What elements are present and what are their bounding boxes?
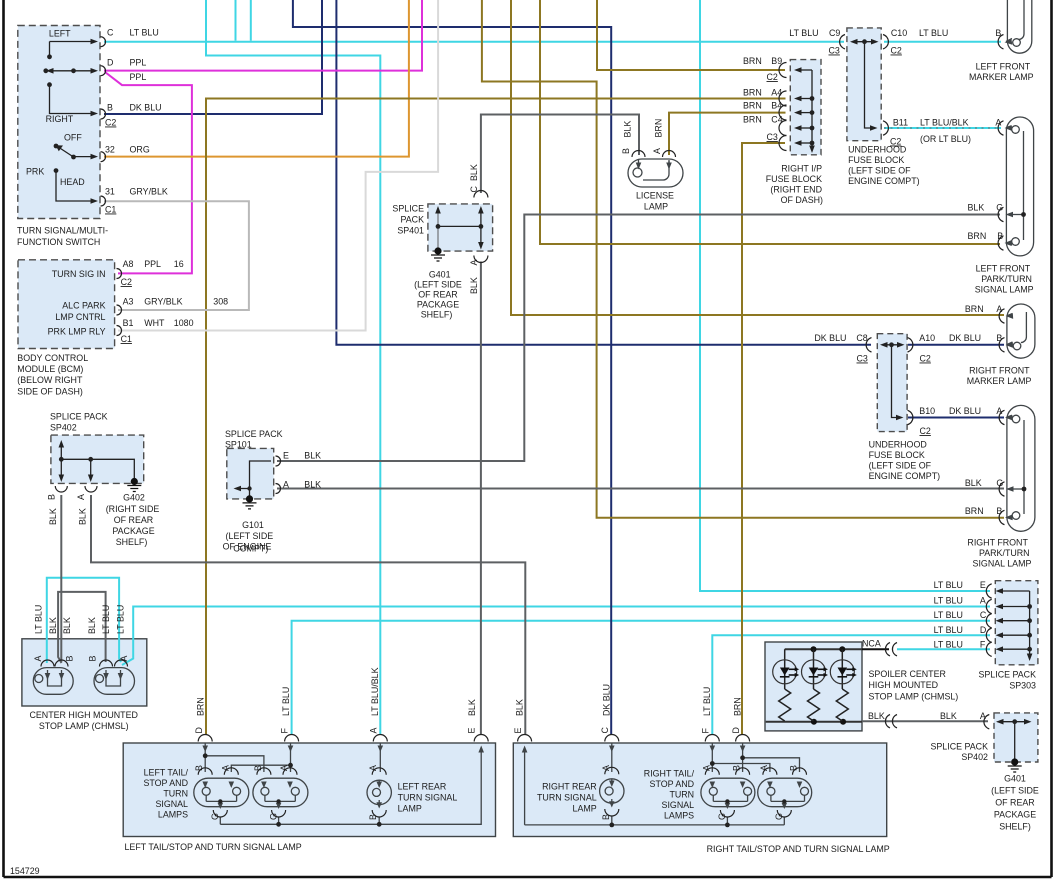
svg-text:BRN: BRN (965, 506, 984, 516)
svg-text:A4: A4 (771, 88, 782, 98)
svg-text:A: A (469, 260, 479, 266)
svg-text:G: G (717, 813, 727, 820)
splice pack SP401 box (428, 204, 493, 251)
svg-text:B10: B10 (919, 406, 935, 416)
wire BRN fuse C3 run to right tail lamp pin D (742, 143, 785, 735)
svg-text:C2: C2 (920, 426, 931, 436)
svg-text:BLK: BLK (78, 508, 88, 525)
left tail/stop and turn signal lamp box (123, 743, 495, 837)
wire GRY/BLK switch pin 31 to BCM pin A3 (104, 201, 249, 310)
svg-text:A: A (996, 406, 1002, 416)
svg-text:A: A (980, 711, 986, 721)
svg-text:G401: G401 (429, 270, 451, 280)
svg-text:(BELOW RIGHT: (BELOW RIGHT (17, 375, 83, 385)
svg-text:154729: 154729 (10, 866, 40, 876)
LED 2 (808, 649, 820, 721)
wire LT BLU C10 to left front marker lamp pin B (884, 41, 1001, 43)
left tail dual filament bulb 2 (253, 778, 308, 824)
wire BLK splice SP402 pin A to right tail lamp pin E (91, 495, 525, 735)
svg-text:B: B (88, 656, 98, 662)
svg-text:BODY CONTROL: BODY CONTROL (17, 353, 88, 363)
svg-text:RIGHT REAR: RIGHT REAR (542, 782, 597, 792)
svg-text:FUSE BLOCK: FUSE BLOCK (869, 450, 925, 460)
svg-text:ALC PARK: ALC PARK (62, 301, 105, 311)
svg-text:SHELF): SHELF) (116, 537, 148, 547)
svg-text:A: A (368, 765, 378, 771)
right I/P fuse block box (790, 60, 821, 155)
svg-text:LT BLU: LT BLU (702, 687, 712, 716)
svg-text:D: D (980, 625, 986, 635)
wire PPL switch pin D to top (104, 0, 422, 71)
I/P fuse pin arcs (779, 63, 787, 151)
svg-text:B: B (253, 765, 263, 771)
svg-text:B9: B9 (771, 56, 782, 66)
svg-text:A: A (76, 494, 86, 500)
svg-text:C3: C3 (857, 354, 868, 364)
svg-text:SPLICE PACK: SPLICE PACK (50, 412, 108, 422)
svg-text:A: A (652, 148, 662, 154)
svg-text:COMPT): COMPT) (233, 544, 268, 554)
wire LT BLU pin C to C9 connector (104, 41, 844, 43)
svg-text:OF REAR: OF REAR (114, 515, 153, 525)
svg-text:PRK: PRK (26, 167, 44, 177)
svg-text:CENTER HIGH MOUNTED: CENTER HIGH MOUNTED (29, 710, 137, 720)
svg-text:LT BLU/BLK: LT BLU/BLK (370, 667, 380, 716)
svg-text:SPLICE: SPLICE (392, 204, 424, 214)
svg-text:C2: C2 (920, 354, 931, 364)
svg-text:RIGHT: RIGHT (46, 114, 74, 124)
wire DK BLU from top to underhood C8 connector (336, 0, 871, 345)
wire LT BLU/BLK from top to left tail lamp pin A (206, 0, 380, 735)
svg-text:SP401: SP401 (397, 226, 424, 236)
svg-text:BLK: BLK (940, 711, 957, 721)
svg-text:A: A (601, 765, 611, 771)
svg-text:C: C (600, 727, 610, 734)
wire WHT BCM pin B1 to top (118, 0, 438, 331)
switch pin D wiper row (47, 70, 92, 72)
svg-text:C1: C1 (121, 334, 132, 344)
wire LT BLU splice SP303 pin D to right tail lamp pin F (712, 635, 990, 735)
svg-text:BLK: BLK (62, 617, 72, 634)
svg-text:LAMP: LAMP (398, 804, 422, 814)
svg-text:B: B (789, 765, 799, 771)
svg-text:G: G (210, 813, 220, 820)
svg-text:C2: C2 (891, 46, 902, 56)
svg-text:LAMPS: LAMPS (158, 810, 188, 820)
wire BLK splice SP402 pin B to CHMSL pin B (60, 495, 62, 662)
SP303 pin arcs (986, 584, 991, 657)
svg-text:SP101: SP101 (225, 440, 252, 450)
svg-text:SP402: SP402 (961, 752, 988, 762)
svg-text:D: D (194, 727, 204, 733)
svg-text:C2: C2 (767, 72, 778, 82)
wire LT BLU CHMSL bridge pin A to pin A (47, 578, 121, 663)
svg-text:HIGH MOUNTED: HIGH MOUNTED (869, 680, 939, 690)
svg-text:PPL: PPL (130, 72, 147, 82)
svg-text:A: A (220, 765, 230, 771)
svg-text:B: B (621, 148, 631, 154)
svg-text:RIGHT FRONT: RIGHT FRONT (969, 366, 1030, 376)
LED 1 (779, 649, 791, 721)
svg-text:MODULE (BCM): MODULE (BCM) (17, 364, 83, 374)
svg-text:C1: C1 (105, 205, 116, 215)
svg-text:(LEFT SIDE: (LEFT SIDE (991, 786, 1039, 796)
wire DK BLU underhood B10 to right front park/turn lamp pin A (908, 417, 1004, 419)
wire LT BLU vertical stub 1 at top (235, 0, 237, 41)
svg-text:31: 31 (105, 187, 115, 197)
wire BRN fuse A4 run to left tail lamp pin D (206, 99, 786, 736)
splice pack SP303 box (995, 581, 1038, 665)
svg-text:RIGHT TAIL/STOP AND TURN SIGNA: RIGHT TAIL/STOP AND TURN SIGNAL LAMP (707, 844, 890, 854)
svg-text:A10: A10 (919, 333, 935, 343)
svg-text:BRN: BRN (965, 304, 984, 314)
svg-text:SHELF): SHELF) (999, 822, 1031, 832)
svg-text:C: C (107, 27, 114, 37)
right rear turn signal bulb (600, 779, 624, 825)
wire BLK spoiler CHMSL to splice SP402 pin A (862, 720, 988, 722)
svg-text:LT BLU: LT BLU (934, 625, 963, 635)
svg-text:LEFT REAR: LEFT REAR (398, 782, 447, 792)
svg-text:A: A (283, 480, 289, 490)
svg-text:A: A (759, 765, 769, 771)
svg-text:PPL: PPL (130, 57, 147, 67)
svg-text:OFF: OFF (64, 133, 82, 143)
svg-text:FUSE BLOCK: FUSE BLOCK (766, 174, 822, 184)
right tail ground bus (525, 748, 785, 825)
spoiler top bus (785, 648, 862, 650)
svg-text:LT BLU: LT BLU (281, 687, 291, 716)
right tail dual filament bulb 1 (701, 778, 755, 825)
switch headlamp wiper OFF/PRK/HEAD (56, 148, 92, 202)
svg-text:BRN: BRN (733, 697, 743, 716)
svg-text:BLK: BLK (469, 277, 479, 294)
svg-text:ENGINE COMPT): ENGINE COMPT) (869, 471, 941, 481)
svg-text:PACKAGE: PACKAGE (417, 300, 459, 310)
wire NCA spoiler CHMSL to connector (862, 648, 889, 650)
svg-text:E: E (513, 728, 523, 734)
svg-text:GRY/BLK: GRY/BLK (144, 297, 182, 307)
svg-text:LT BLU: LT BLU (130, 27, 159, 37)
SP402 right pin arc A (984, 715, 989, 729)
svg-text:D: D (731, 727, 741, 733)
svg-text:UNDERHOOD: UNDERHOOD (848, 145, 906, 155)
svg-text:BLK: BLK (48, 617, 58, 634)
svg-text:B: B (996, 506, 1002, 516)
svg-text:LAMP: LAMP (644, 202, 668, 212)
svg-text:TURN: TURN (163, 789, 188, 799)
svg-text:LMP CNTRL: LMP CNTRL (55, 312, 105, 322)
svg-text:BLK: BLK (467, 699, 477, 716)
svg-text:B: B (732, 765, 742, 771)
svg-text:E: E (283, 451, 289, 461)
svg-text:C: C (469, 186, 479, 193)
SP402 pin arcs B and A (55, 486, 97, 492)
svg-text:LT BLU: LT BLU (934, 640, 963, 650)
ground G401 right (1011, 758, 1018, 765)
left front marker pin B arc (998, 35, 1003, 49)
svg-text:F: F (701, 728, 711, 734)
svg-text:A: A (980, 596, 986, 606)
svg-text:(LEFT SIDE: (LEFT SIDE (226, 531, 274, 541)
svg-text:BRN: BRN (968, 231, 987, 241)
svg-text:BLK: BLK (48, 508, 58, 525)
svg-text:B: B (368, 814, 378, 820)
left tail internal feed wiring (205, 743, 380, 772)
svg-text:F: F (280, 728, 290, 734)
svg-text:A: A (996, 304, 1002, 314)
wire DK BLU from top to right tail lamp pin C (293, 0, 611, 735)
svg-text:TURN: TURN (669, 790, 694, 800)
svg-text:B1: B1 (123, 318, 134, 328)
inline connector arcs BLK wire (885, 715, 897, 728)
wire LT BLU splice SP303 pin F from NCA connector (897, 648, 990, 650)
svg-text:B4: B4 (771, 101, 782, 111)
svg-text:SPLICE PACK: SPLICE PACK (978, 670, 1036, 680)
svg-text:BLK: BLK (515, 699, 525, 716)
svg-text:TURN SIGNAL: TURN SIGNAL (537, 793, 597, 803)
svg-text:PARK/TURN: PARK/TURN (979, 548, 1030, 558)
wire BLK splice SP101 pin A to right front park/turn lamp pin G (277, 488, 1004, 490)
svg-text:(LEFT SIDE OF: (LEFT SIDE OF (848, 166, 911, 176)
svg-text:PPL: PPL (144, 259, 161, 269)
svg-text:UNDERHOOD: UNDERHOOD (869, 440, 927, 450)
svg-text:TURN SIGNAL/MULTI-: TURN SIGNAL/MULTI- (17, 226, 108, 236)
svg-text:LT BLU: LT BLU (919, 28, 948, 38)
svg-text:MARKER LAMP: MARKER LAMP (969, 72, 1034, 82)
svg-text:BRN: BRN (743, 56, 762, 66)
svg-text:D: D (107, 57, 113, 67)
svg-text:C2: C2 (105, 118, 116, 128)
left tail dual filament bulb 1 (194, 778, 249, 824)
svg-text:LAMP: LAMP (573, 804, 597, 814)
svg-text:A: A (369, 728, 379, 734)
svg-text:MARKER LAMP: MARKER LAMP (967, 376, 1032, 386)
svg-text:G401: G401 (1004, 774, 1026, 784)
svg-text:OF DASH): OF DASH) (781, 195, 823, 205)
svg-text:DK BLU: DK BLU (949, 406, 981, 416)
wire BLK license lamp pin B to splice SP401 pin C (481, 115, 639, 194)
svg-text:BRN: BRN (654, 119, 664, 138)
wire BRN from top to right front park/turn lamp pin B (482, 0, 1004, 518)
ground G401 left (434, 247, 441, 254)
svg-text:B: B (601, 814, 611, 820)
svg-text:G101: G101 (242, 520, 264, 530)
svg-text:PACK: PACK (400, 215, 424, 225)
svg-text:B: B (997, 231, 1003, 241)
svg-text:DK BLU: DK BLU (949, 333, 981, 343)
inline connector arcs NCA wire (885, 643, 897, 656)
body control module box (18, 260, 115, 349)
svg-text:BLK: BLK (304, 451, 321, 461)
svg-text:LEFT: LEFT (49, 29, 71, 39)
svg-text:BRN: BRN (743, 88, 762, 98)
svg-text:RIGHT I/P: RIGHT I/P (781, 164, 822, 174)
wire BLK splice SP401 pin A to left tail lamp pin E (480, 262, 482, 736)
svg-text:A: A (279, 765, 289, 771)
svg-text:RIGHT FRONT: RIGHT FRONT (967, 538, 1028, 548)
svg-text:G: G (996, 478, 1003, 488)
wire DK BLU underhood A10 to right front marker lamp pin B (908, 344, 1004, 346)
splice pack SP101 box (227, 448, 274, 499)
svg-text:FUSE BLOCK: FUSE BLOCK (848, 155, 904, 165)
svg-text:RIGHT TAIL/: RIGHT TAIL/ (644, 769, 695, 779)
svg-text:SP303: SP303 (1009, 681, 1036, 691)
svg-text:1080: 1080 (174, 318, 194, 328)
ground G402 (131, 478, 138, 485)
svg-text:DK BLU: DK BLU (602, 684, 612, 716)
svg-text:PRK LMP RLY: PRK LMP RLY (48, 327, 106, 337)
svg-text:LAMPS: LAMPS (664, 811, 694, 821)
svg-text:SIGNAL LAMP: SIGNAL LAMP (975, 285, 1034, 295)
svg-text:PACKAGE: PACKAGE (112, 526, 154, 536)
svg-text:FUNCTION SWITCH: FUNCTION SWITCH (17, 237, 100, 247)
svg-text:32: 32 (105, 145, 115, 155)
ground G101 (246, 495, 253, 502)
svg-text:SIDE OF DASH): SIDE OF DASH) (17, 387, 83, 397)
switch RIGHT contact arm (50, 85, 93, 114)
svg-text:C9: C9 (829, 28, 840, 38)
svg-text:SP402: SP402 (50, 423, 77, 433)
svg-text:(LEFT SIDE OF: (LEFT SIDE OF (869, 461, 932, 471)
license pin arcs B A (632, 151, 676, 158)
svg-text:NCA: NCA (862, 639, 881, 649)
svg-text:B: B (996, 333, 1002, 343)
svg-text:(RIGHT END: (RIGHT END (770, 185, 822, 195)
svg-text:BLK: BLK (87, 617, 97, 634)
turn signal/multi-function switch box (18, 26, 100, 219)
wire BRN fuse B4 to license lamp pin A (669, 113, 786, 155)
svg-text:LEFT TAIL/STOP AND TURN SIGNAL: LEFT TAIL/STOP AND TURN SIGNAL LAMP (125, 842, 302, 852)
svg-text:BLK: BLK (868, 711, 885, 721)
svg-text:(LEFT SIDE: (LEFT SIDE (414, 280, 462, 290)
svg-text:308: 308 (213, 297, 228, 307)
svg-text:C8: C8 (856, 333, 867, 343)
svg-text:LEFT FRONT: LEFT FRONT (976, 264, 1031, 274)
svg-text:SHELF): SHELF) (421, 310, 453, 320)
svg-text:DK BLU: DK BLU (130, 102, 162, 112)
wire BRN from top to right front marker lamp pin A (511, 0, 1004, 315)
svg-text:STOP LAMP (CHMSL): STOP LAMP (CHMSL) (39, 721, 129, 731)
svg-text:(OR LT BLU): (OR LT BLU) (920, 134, 971, 144)
svg-text:A: A (995, 118, 1001, 128)
svg-text:SIGNAL: SIGNAL (662, 800, 695, 810)
svg-text:LT BLU: LT BLU (934, 580, 963, 590)
svg-text:A3: A3 (123, 297, 134, 307)
wire PPL switch pin D to BCM pin A8 (105, 72, 192, 273)
svg-text:ENGINE COMPT): ENGINE COMPT) (848, 176, 920, 186)
SP401 pin arcs C and A (474, 191, 488, 263)
switch pin arcs (101, 37, 106, 206)
svg-text:OF REAR: OF REAR (995, 798, 1034, 808)
underhood top connector arcs C9/C10/B11 (840, 35, 889, 136)
left rear turn signal bulb (367, 780, 391, 824)
right tail dual filament bulb 2 (758, 778, 812, 825)
wire LT BLU/BLK underhood B11 to left front park/turn lamp pin A (884, 127, 1001, 129)
svg-text:G: G (774, 813, 784, 820)
svg-text:LEFT TAIL/: LEFT TAIL/ (144, 768, 189, 778)
left tail pin arcs D F A E (198, 735, 488, 742)
svg-text:SPOILER CENTER: SPOILER CENTER (869, 669, 946, 679)
svg-text:LT BLU/BLK: LT BLU/BLK (920, 118, 969, 128)
svg-text:C2: C2 (121, 277, 132, 287)
svg-text:LT BLU: LT BLU (789, 28, 818, 38)
underhood middle connector arcs C8/A10/B10 (866, 338, 913, 425)
LED 3 (836, 649, 848, 721)
svg-text:LT BLU: LT BLU (34, 605, 44, 634)
CHMSL bulb 1 (33, 668, 73, 695)
svg-text:DK BLU: DK BLU (814, 333, 846, 343)
svg-text:PACKAGE: PACKAGE (994, 810, 1036, 820)
svg-text:A8: A8 (123, 259, 134, 269)
svg-text:STOP AND: STOP AND (143, 778, 188, 788)
switch LEFT contact arm (50, 42, 93, 57)
svg-text:A: A (33, 656, 43, 662)
svg-text:ORG: ORG (130, 145, 150, 155)
spoiler CHMSL box (765, 642, 862, 731)
svg-text:BLK: BLK (304, 480, 321, 490)
svg-text:STOP AND: STOP AND (650, 779, 695, 789)
svg-text:G402: G402 (123, 493, 145, 503)
svg-text:16: 16 (174, 259, 184, 269)
SP101 pin arcs E and A (276, 456, 281, 494)
svg-text:LEFT FRONT: LEFT FRONT (976, 62, 1031, 72)
svg-text:E: E (980, 580, 986, 590)
wire BRN from top to right I/P fuse block pin B9 (597, 0, 785, 70)
svg-text:LT BLU: LT BLU (934, 610, 963, 620)
svg-text:BLK: BLK (968, 203, 985, 213)
svg-text:PARK/TURN: PARK/TURN (981, 274, 1032, 284)
svg-text:BRN: BRN (196, 697, 206, 716)
svg-text:SPLICE PACK: SPLICE PACK (225, 429, 283, 439)
svg-text:(RIGHT SIDE: (RIGHT SIDE (106, 504, 160, 514)
wire LT BLU splice SP303 pin C to left tail lamp pin F (292, 621, 990, 735)
svg-text:OF REAR: OF REAR (418, 290, 457, 300)
svg-text:C3: C3 (767, 132, 778, 142)
svg-text:SPLICE PACK: SPLICE PACK (930, 742, 988, 752)
svg-text:B: B (65, 656, 75, 662)
svg-text:G: G (996, 203, 1003, 213)
svg-text:HEAD: HEAD (60, 177, 85, 187)
CHMSL pin arcs A B B A (41, 660, 128, 666)
svg-text:LT BLU: LT BLU (116, 605, 126, 634)
wire BLK splice SP101 pin E to left front park/turn lamp pin G (277, 215, 1000, 462)
svg-text:SIGNAL: SIGNAL (155, 799, 188, 809)
splice pack SP402 box (51, 435, 144, 483)
left front park/turn pin arcs A G B (998, 121, 1003, 250)
svg-text:BRN: BRN (743, 115, 762, 125)
right tail pin arcs E C F D (518, 735, 750, 742)
CHMSL bulb 2 (94, 668, 135, 695)
wire LT BLU vertical stub 2 at top (250, 0, 252, 41)
svg-text:A: A (701, 765, 711, 771)
svg-text:BLK: BLK (469, 164, 479, 181)
svg-text:G: G (268, 813, 278, 820)
svg-text:C: C (980, 610, 987, 620)
svg-text:STOP LAMP (CHMSL): STOP LAMP (CHMSL) (869, 692, 959, 702)
center high mounted stop lamp box (22, 639, 147, 706)
svg-text:GRY/BLK: GRY/BLK (130, 187, 168, 197)
right tail internal feed wiring (612, 743, 800, 772)
right front park/turn pin arcs A G B (999, 410, 1004, 524)
underhood fuse block box (middle) (877, 334, 907, 432)
svg-text:LT BLU: LT BLU (101, 605, 111, 634)
wire BLK CHMSL bridge pin B to pin B (58, 592, 106, 663)
svg-text:BRN: BRN (743, 101, 762, 111)
svg-text:B: B (194, 765, 204, 771)
svg-text:BLK: BLK (623, 121, 633, 138)
svg-text:B: B (47, 494, 57, 500)
svg-text:F: F (980, 640, 986, 650)
